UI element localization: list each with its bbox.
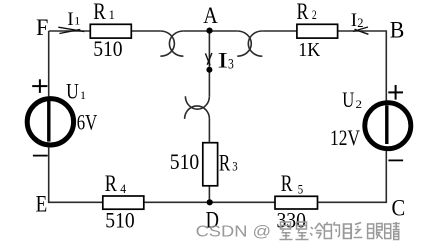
junction dot below I3 arrow <box>206 67 212 73</box>
wire node A to right crossover <box>210 30 238 32</box>
wire node A down to junction dot <box>208 31 210 70</box>
wire F corner to R1 <box>49 30 91 32</box>
svg-text:C: C <box>392 195 406 221</box>
U2 plus sign <box>388 85 403 100</box>
wire right crossover to R2 <box>262 30 297 32</box>
current arrow I1 <box>58 27 84 33</box>
svg-text:12V: 12V <box>330 125 360 150</box>
svg-text:U: U <box>66 79 79 104</box>
crossover hop right of node A (left arc) <box>237 31 251 56</box>
svg-text:2: 2 <box>356 97 363 111</box>
svg-text:R: R <box>93 0 106 24</box>
svg-text:510: 510 <box>170 149 199 174</box>
svg-text:U: U <box>342 87 354 112</box>
wire R5 to node D <box>209 201 275 203</box>
wire R1 to left crossover <box>131 30 160 32</box>
voltage source U1 inner bar <box>47 101 50 142</box>
voltage source U2 circle <box>365 103 411 149</box>
svg-text:2: 2 <box>357 16 363 30</box>
svg-text:510: 510 <box>93 36 122 61</box>
resistor R4 <box>103 196 144 209</box>
resistor R2 <box>297 24 338 38</box>
svg-text:R: R <box>105 171 118 196</box>
resistor R5 <box>275 196 318 209</box>
U1 minus sign <box>33 155 48 157</box>
svg-text:E: E <box>36 192 48 218</box>
voltage source U2 inner bar <box>385 105 388 144</box>
wire left crossover to node A <box>183 30 209 32</box>
U1 plus sign <box>32 79 47 93</box>
svg-text:F: F <box>36 15 48 41</box>
resistor R3 <box>203 143 218 186</box>
svg-text:I: I <box>67 9 73 30</box>
svg-text:A: A <box>203 3 218 29</box>
crossover hop left of node A (left arc) <box>160 31 174 56</box>
watermark chinese glyphs (hand drawn) <box>280 222 400 240</box>
current arrow I3 <box>205 53 212 65</box>
vertical crossover hop on middle branch (lower arc) <box>185 106 210 119</box>
resistor R1 <box>90 24 131 38</box>
svg-text:B: B <box>390 18 405 44</box>
svg-text:510: 510 <box>105 207 134 232</box>
wire R2 to node B corner <box>338 31 387 101</box>
svg-text:I: I <box>218 48 228 73</box>
wire U2 to node C corner <box>318 151 387 203</box>
wire vertical crossover to R3 <box>208 119 210 143</box>
svg-text:R: R <box>297 0 310 24</box>
svg-text:3: 3 <box>228 57 234 73</box>
svg-text:CSDN @: CSDN @ <box>196 224 272 241</box>
svg-text:I: I <box>351 10 357 31</box>
wire R4 to node E corner <box>49 147 103 202</box>
voltage source U1 circle <box>27 99 73 145</box>
node A junction dot <box>206 28 212 34</box>
svg-text:5: 5 <box>298 182 303 196</box>
crossover hop left of node A (right arc) <box>169 31 183 56</box>
wire node F corner down to U1 <box>48 31 50 96</box>
svg-text:3: 3 <box>232 159 237 174</box>
wire junction dot to vertical crossover <box>208 70 210 97</box>
svg-text:6V: 6V <box>77 110 98 135</box>
wire R3 to node D <box>208 186 210 203</box>
svg-text:1: 1 <box>109 8 115 22</box>
U2 minus sign <box>388 159 403 161</box>
node D junction dot <box>207 199 213 205</box>
vertical crossover hop on middle branch (upper arc) <box>185 96 209 109</box>
svg-text:1K: 1K <box>298 39 320 61</box>
svg-text:R: R <box>219 150 231 175</box>
svg-text:R: R <box>281 171 293 196</box>
current arrow I2 <box>353 27 368 34</box>
svg-text:1: 1 <box>74 14 80 28</box>
wire node D to R4 <box>144 201 210 203</box>
svg-text:1: 1 <box>80 88 86 102</box>
svg-text:2: 2 <box>312 8 317 22</box>
svg-text:4: 4 <box>120 182 126 196</box>
crossover hop right of node A (right arc) <box>248 31 262 56</box>
